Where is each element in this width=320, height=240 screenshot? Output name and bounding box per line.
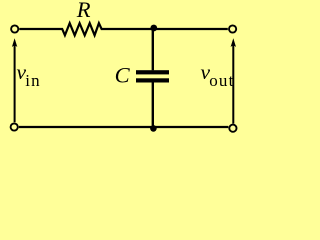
terminal top-right xyxy=(229,25,236,32)
terminal bottom-left xyxy=(11,123,18,130)
vout voltage arrow shaft xyxy=(232,45,234,124)
capacitor C1 top plate xyxy=(136,70,169,74)
wire capacitor branch lower stub xyxy=(152,82,154,127)
vin voltage arrow shaft xyxy=(14,45,16,122)
terminal top-left xyxy=(11,25,18,32)
capacitor C1 bottom plate xyxy=(136,78,169,82)
vout voltage arrow head xyxy=(231,38,236,47)
svg-text:C: C xyxy=(115,63,131,88)
node junction bottom xyxy=(150,125,157,132)
svg-text:R: R xyxy=(76,0,91,22)
vin voltage arrow head xyxy=(12,38,17,47)
terminal bottom-right xyxy=(229,125,236,132)
node junction top xyxy=(150,25,157,32)
wire top rail with resistor R body xyxy=(19,23,228,35)
wire bottom rail xyxy=(19,126,229,128)
wire capacitor branch upper stub xyxy=(152,29,154,70)
